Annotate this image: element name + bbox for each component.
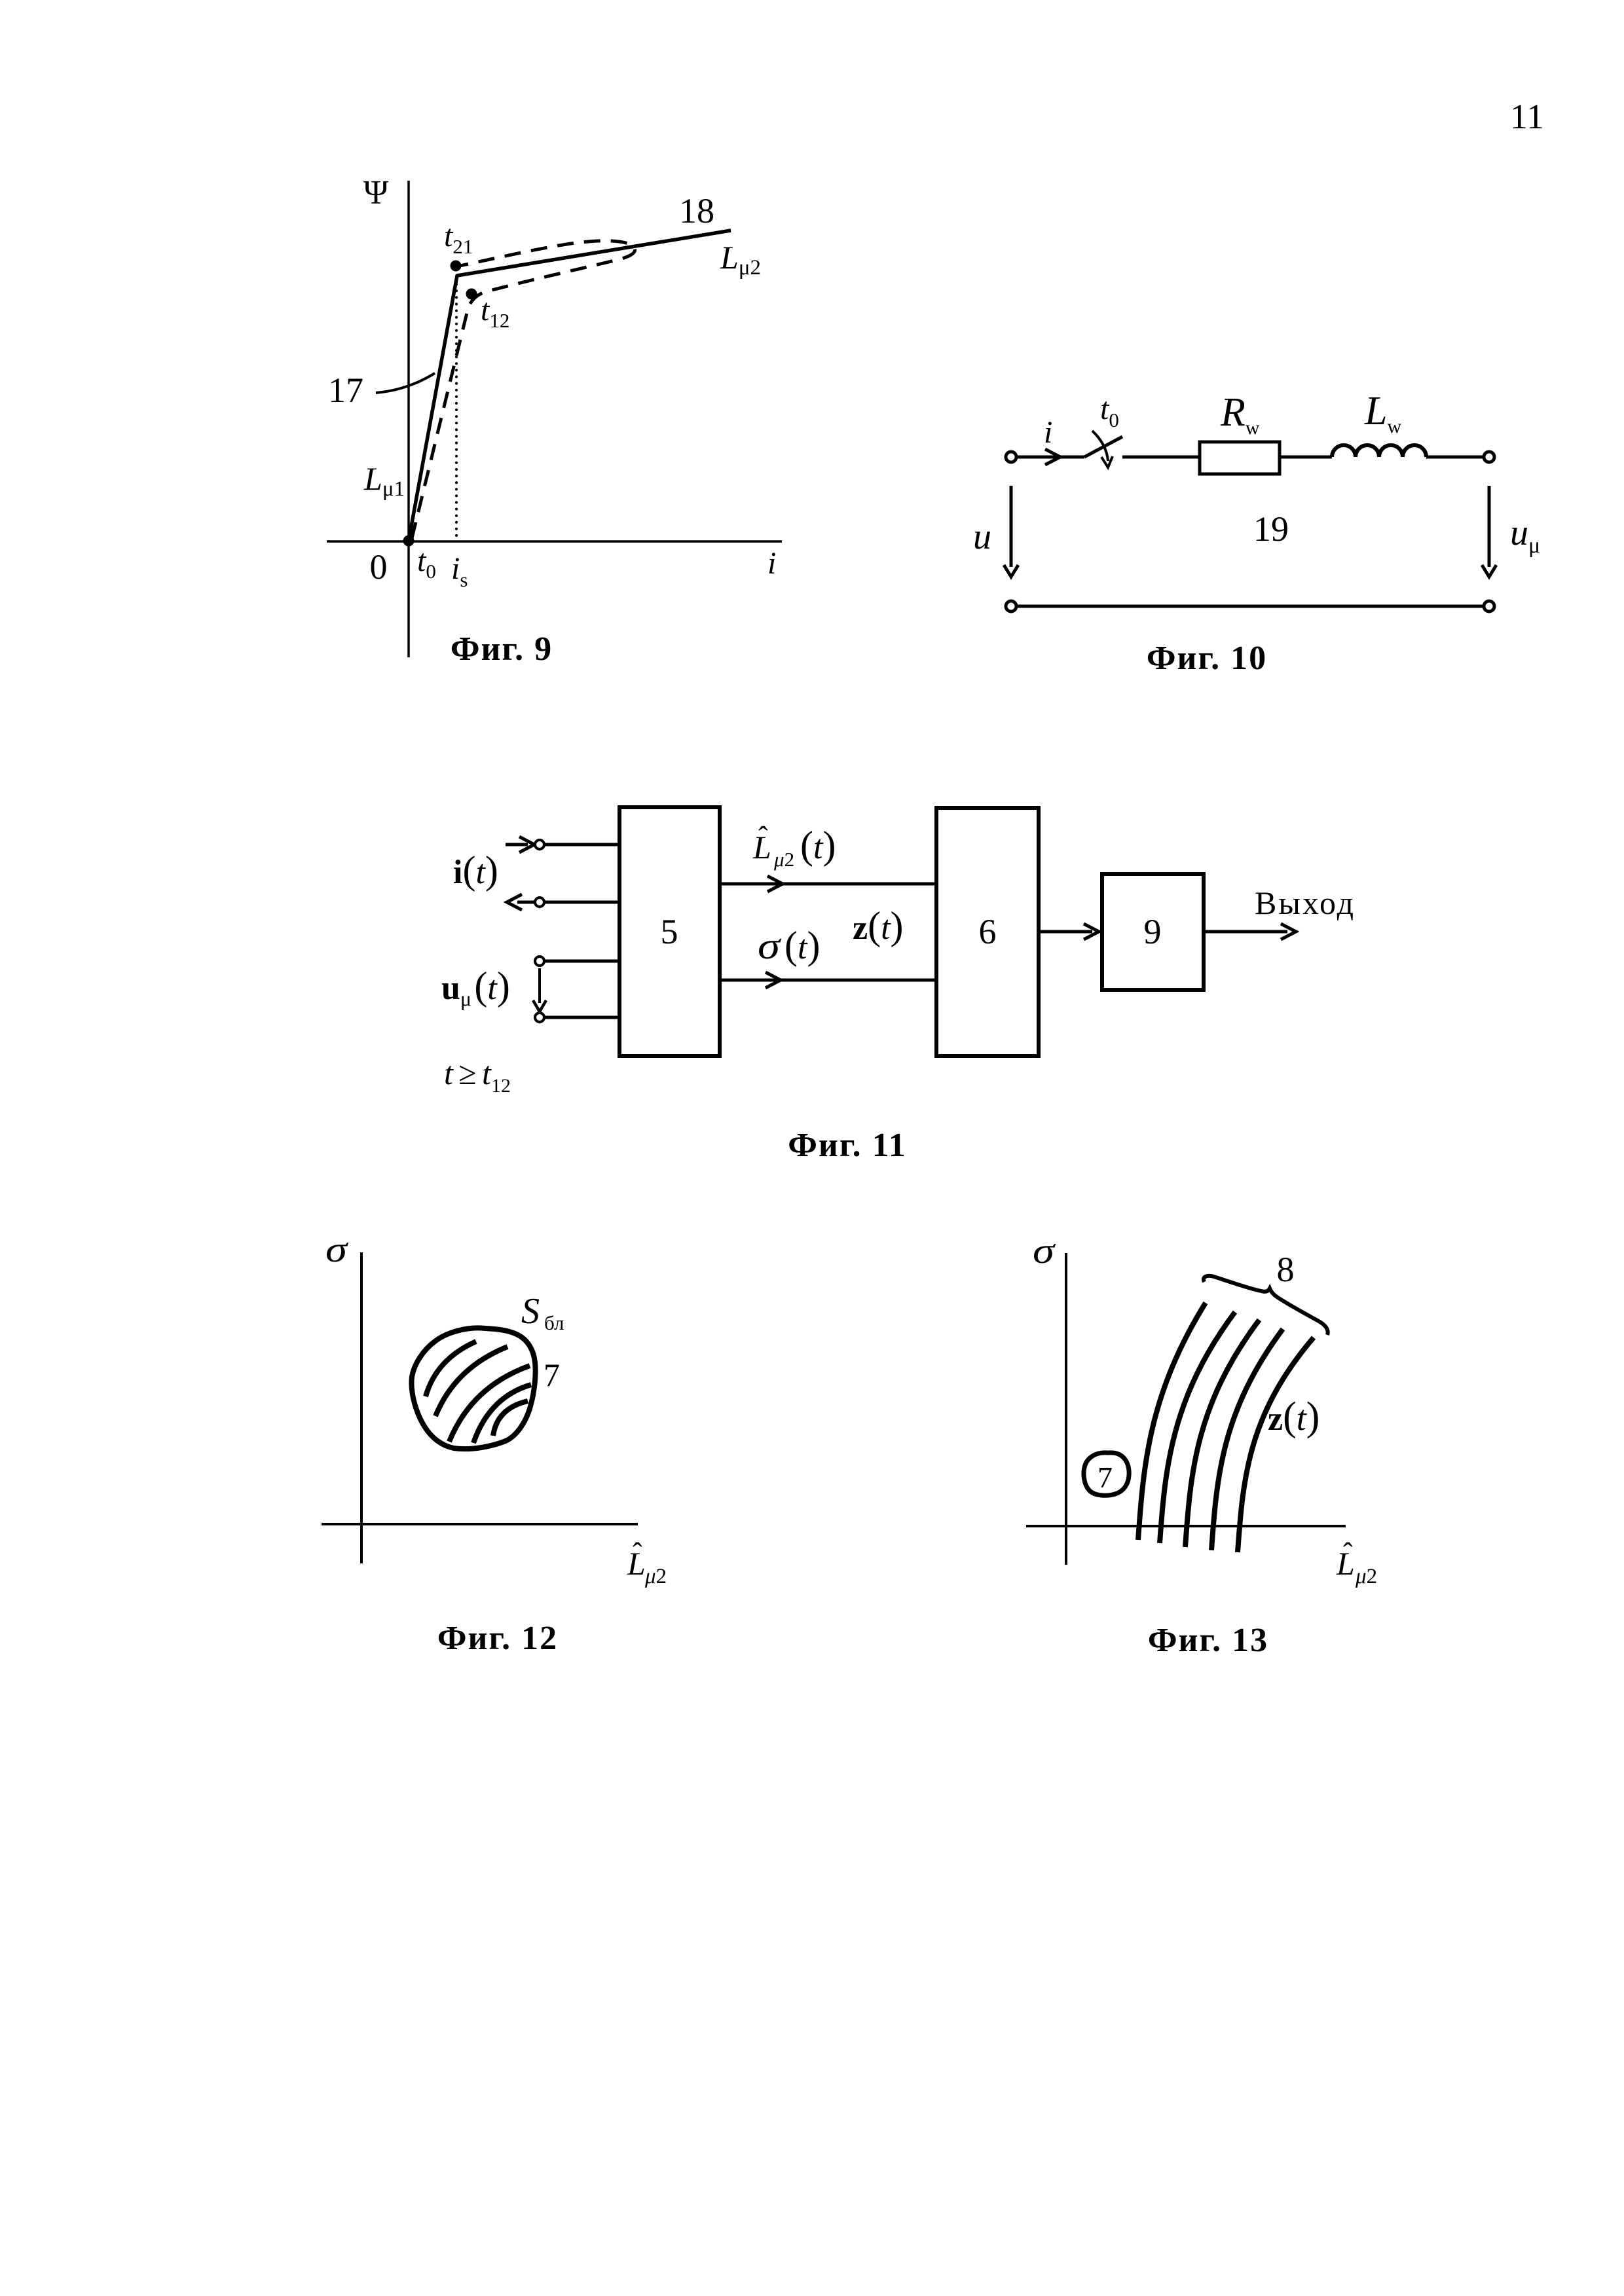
resistor Rw <box>1200 442 1280 474</box>
sampling arrow <box>538 968 541 1003</box>
svg-text:6: 6 <box>979 912 997 951</box>
axis sigma vertical <box>360 1252 363 1563</box>
svg-text:(t): (t) <box>800 824 836 867</box>
axis Psi (vertical) <box>407 181 410 657</box>
leader line for 17 <box>376 373 435 393</box>
signal wire sigma(t) <box>720 979 936 982</box>
svg-text:uμ (t): uμ (t) <box>441 964 510 1010</box>
dashed hysteresis path 18 <box>412 241 635 538</box>
blob region 7 outline <box>411 1328 535 1449</box>
svg-text:Фиг. 13: Фиг. 13 <box>1148 1622 1268 1659</box>
svg-text:μ2: μ2 <box>1355 1565 1377 1588</box>
voltage arrow u <box>1010 486 1013 567</box>
svg-text:8: 8 <box>1277 1250 1295 1289</box>
terminal bottom-right <box>1484 601 1494 611</box>
input wire 2 <box>517 901 535 904</box>
svg-text:u: u <box>973 517 991 557</box>
input wire 4 <box>535 1013 544 1022</box>
trajectory curve 4 <box>1211 1329 1283 1550</box>
node t21 dot <box>451 261 462 272</box>
svg-text:i: i <box>1044 415 1052 450</box>
svg-text:Фиг. 12: Фиг. 12 <box>437 1620 558 1657</box>
svg-text:9: 9 <box>1144 912 1162 951</box>
svg-text:0: 0 <box>370 547 388 587</box>
svg-text:Фиг. 9: Фиг. 9 <box>451 630 553 668</box>
svg-text:μ2: μ2 <box>644 1565 667 1588</box>
svg-text:ˆ: ˆ <box>1343 1537 1353 1569</box>
wire switch to resistor <box>1122 456 1200 459</box>
input wire 3 <box>535 957 544 966</box>
switch t0 blade <box>1084 437 1122 457</box>
svg-text:7: 7 <box>544 1357 560 1393</box>
svg-text:i: i <box>767 546 776 581</box>
svg-text:σ: σ <box>1033 1231 1056 1271</box>
svg-text:(t): (t) <box>784 924 820 967</box>
axis sigma vertical <box>1065 1253 1067 1565</box>
svg-text:ˆ: ˆ <box>758 821 768 853</box>
brace 8 <box>1204 1276 1328 1335</box>
trajectory curve 5 <box>1238 1338 1314 1552</box>
axis L2 horizontal <box>1026 1525 1346 1527</box>
wire inductor to terminal <box>1426 456 1484 459</box>
small region 7 outline <box>1084 1453 1129 1495</box>
origin dot <box>403 536 415 547</box>
signal wire L2(t) <box>720 883 936 886</box>
svg-text:S: S <box>521 1291 540 1332</box>
hatch curve 1 <box>426 1341 476 1396</box>
output wire <box>1204 930 1287 934</box>
current arrow i <box>1045 449 1060 465</box>
wire top-left <box>1016 456 1084 459</box>
trajectory curve 2 <box>1160 1312 1235 1543</box>
block 5 <box>619 807 720 1056</box>
terminal top-left <box>1006 452 1016 462</box>
axis L2 horizontal <box>322 1523 638 1525</box>
svg-text:Фиг. 10: Фиг. 10 <box>1147 640 1267 677</box>
dotted drop line at i_s <box>455 278 458 539</box>
svg-text:18: 18 <box>679 191 714 230</box>
svg-text:бл: бл <box>544 1311 564 1334</box>
svg-text:μ2: μ2 <box>773 848 794 871</box>
svg-text:σ: σ <box>758 924 782 967</box>
wire bottom <box>1016 605 1484 608</box>
hatch curve 3 <box>449 1366 530 1442</box>
svg-text:ˆ: ˆ <box>633 1537 642 1569</box>
svg-text:Ψ: Ψ <box>363 174 389 211</box>
input wire 1 <box>506 843 528 847</box>
block 6 <box>936 808 1039 1056</box>
svg-text:Фиг. 11: Фиг. 11 <box>788 1127 907 1164</box>
svg-text:19: 19 <box>1253 509 1289 549</box>
block 9 <box>1102 874 1204 990</box>
svg-text:11: 11 <box>1510 97 1544 136</box>
axis i (horizontal) <box>327 540 782 543</box>
svg-text:σ: σ <box>325 1230 349 1270</box>
hatch curve 4 <box>473 1385 531 1443</box>
hatch curve 5 <box>493 1401 528 1436</box>
svg-text:Выход: Выход <box>1255 884 1356 921</box>
hatch curve 2 <box>435 1347 507 1416</box>
trajectory curve 1 <box>1138 1303 1206 1540</box>
node t12 dot <box>466 289 477 300</box>
wire resistor to inductor <box>1280 456 1332 459</box>
svg-text:z(t): z(t) <box>853 904 904 947</box>
svg-text:i(t): i(t) <box>453 848 498 892</box>
svg-text:7: 7 <box>1098 1461 1113 1494</box>
svg-text:17: 17 <box>328 371 363 410</box>
terminal top-right <box>1484 452 1494 462</box>
terminal bottom-left <box>1006 601 1016 611</box>
svg-text:5: 5 <box>661 912 678 951</box>
svg-text:z(t): z(t) <box>1268 1394 1319 1439</box>
trajectory curve 3 <box>1185 1320 1259 1547</box>
inductor Lw <box>1332 445 1426 457</box>
curve 17 solid magnetization line L1-L2 <box>409 230 731 541</box>
voltage arrow u_mu <box>1488 486 1491 567</box>
wire 6 to 9 <box>1039 930 1092 934</box>
switch closing arrow <box>1092 431 1108 461</box>
